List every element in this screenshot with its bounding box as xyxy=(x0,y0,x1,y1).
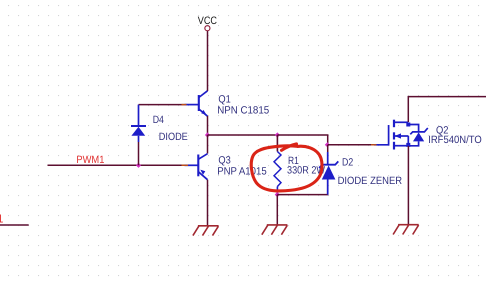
power VCC terminal circle xyxy=(205,26,210,31)
ground symbol right xyxy=(393,225,419,235)
junction R1 bottom xyxy=(275,192,280,197)
wire Q3 collector to ground xyxy=(207,180,209,225)
svg-text:D4: D4 xyxy=(153,114,164,126)
wire node A to R1 top xyxy=(208,134,278,136)
svg-text:DIODE ZENER: DIODE ZENER xyxy=(338,175,403,187)
wire Q1 base to D4 top corner xyxy=(139,104,185,106)
svg-text:D2: D2 xyxy=(342,156,353,168)
wire Q2 source to ground xyxy=(407,146,409,225)
svg-text:IRF540N/TO: IRF540N/TO xyxy=(428,134,482,146)
wire gate node to Q2 gate xyxy=(328,144,374,146)
junction PWM1/D4 xyxy=(136,163,141,168)
svg-text:Q3: Q3 xyxy=(218,154,230,166)
wire transition tints xyxy=(182,104,187,106)
wire Q2 drain to top right xyxy=(408,97,486,122)
svg-text:DIODE: DIODE xyxy=(159,131,188,143)
wire left stub xyxy=(0,224,29,226)
wire R1 bottom to D2 anode xyxy=(277,180,327,195)
junction R1 top xyxy=(275,132,280,137)
ground symbol middle xyxy=(262,225,288,235)
svg-text:1: 1 xyxy=(0,212,3,225)
wire R1 bottom to ground xyxy=(276,195,278,225)
annotation red ellipse around R1 xyxy=(251,144,322,191)
diode D4 xyxy=(131,105,146,166)
junction D2/gate node xyxy=(325,142,330,147)
transistor Q2 mosfet xyxy=(374,120,428,150)
wire Q1 emitter to node A xyxy=(207,116,209,135)
diode D2 zener xyxy=(319,145,338,195)
wire node A to Q3 xyxy=(207,135,209,154)
svg-text:PNP A1015: PNP A1015 xyxy=(217,166,267,178)
transistor Q1 xyxy=(185,91,208,116)
transistor Q3 xyxy=(185,154,208,180)
svg-text:PWM1: PWM1 xyxy=(76,154,104,166)
wire PWM1 to Q3 base xyxy=(48,164,185,166)
wire R1 top to D2 corner xyxy=(277,135,327,145)
resistor R1 xyxy=(274,135,281,195)
junction node A xyxy=(205,132,210,137)
svg-text:NPN C1815: NPN C1815 xyxy=(217,105,269,117)
ground symbol left xyxy=(193,226,219,236)
wire VCC to Q1 collector xyxy=(207,31,209,91)
